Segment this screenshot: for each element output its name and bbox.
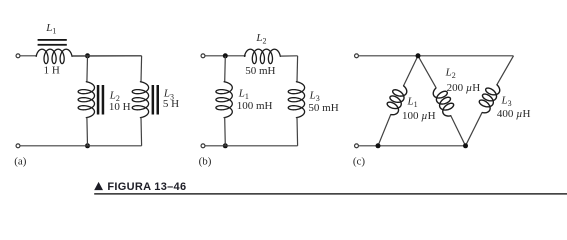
node bottom junction (a)	[85, 143, 90, 148]
inductor L1 (c) 100 uH	[370, 52, 422, 147]
inductor L1 (a) 1 H iron-core	[36, 49, 141, 63]
inductor L2 (c) 200 uH	[414, 52, 473, 148]
svg-text:FIGURA 13–46: FIGURA 13–46	[107, 181, 186, 193]
inductor L3 (c) 400 uH	[458, 52, 518, 148]
svg-text:(b): (b)	[199, 156, 212, 168]
node bottom junction (b)	[223, 143, 228, 148]
svg-text:50 mH: 50 mH	[245, 65, 275, 77]
svg-text:100 µH: 100 µH	[402, 110, 436, 122]
terminal top-left (a)	[16, 54, 20, 58]
wire top (a)	[72, 55, 142, 57]
terminal top-left (c)	[355, 54, 359, 58]
inductor L3 (a) 5 H iron-core	[132, 56, 148, 146]
wire bottom (b)	[205, 145, 297, 147]
caption triangle marker	[94, 182, 103, 190]
wire top-left (b)	[205, 55, 246, 57]
svg-text:50 mH: 50 mH	[308, 102, 338, 114]
svg-text:200 µH: 200 µH	[447, 82, 481, 94]
core bars L1 (a)	[38, 39, 67, 41]
inductor L2 (a) 10 H iron-core	[78, 56, 94, 146]
svg-text:400 µH: 400 µH	[497, 108, 531, 120]
svg-text:(a): (a)	[14, 156, 27, 168]
core bars L3 (a)	[152, 85, 155, 115]
terminal bottom-left (c)	[355, 144, 359, 148]
svg-text:10 H: 10 H	[109, 101, 131, 113]
wire bottom (a)	[20, 145, 141, 147]
node apex A (c)	[416, 53, 421, 58]
core bars L2 (a)	[97, 85, 100, 115]
node C (c)	[463, 143, 468, 148]
svg-text:1 H: 1 H	[44, 65, 60, 77]
wire top (c)	[359, 55, 514, 57]
inductor L2 (b) 50 mH	[244, 49, 297, 63]
terminal bottom-left (b)	[201, 144, 205, 148]
node top junction (a)	[85, 53, 90, 58]
node top junction (b)	[223, 53, 228, 58]
svg-text:100 mH: 100 mH	[237, 100, 273, 112]
wire bottom (c)	[359, 145, 466, 147]
wire top-left (a)	[20, 55, 36, 57]
inductor L1 (b) 100 mH	[216, 56, 232, 146]
terminal bottom-left (a)	[16, 144, 20, 148]
caption rule	[94, 193, 567, 195]
inductor L3 (b) 50 mH	[288, 56, 304, 146]
svg-text:(c): (c)	[353, 156, 366, 168]
terminal top-left (b)	[201, 54, 205, 58]
svg-text:5 H: 5 H	[163, 98, 179, 110]
node B (c)	[376, 143, 381, 148]
